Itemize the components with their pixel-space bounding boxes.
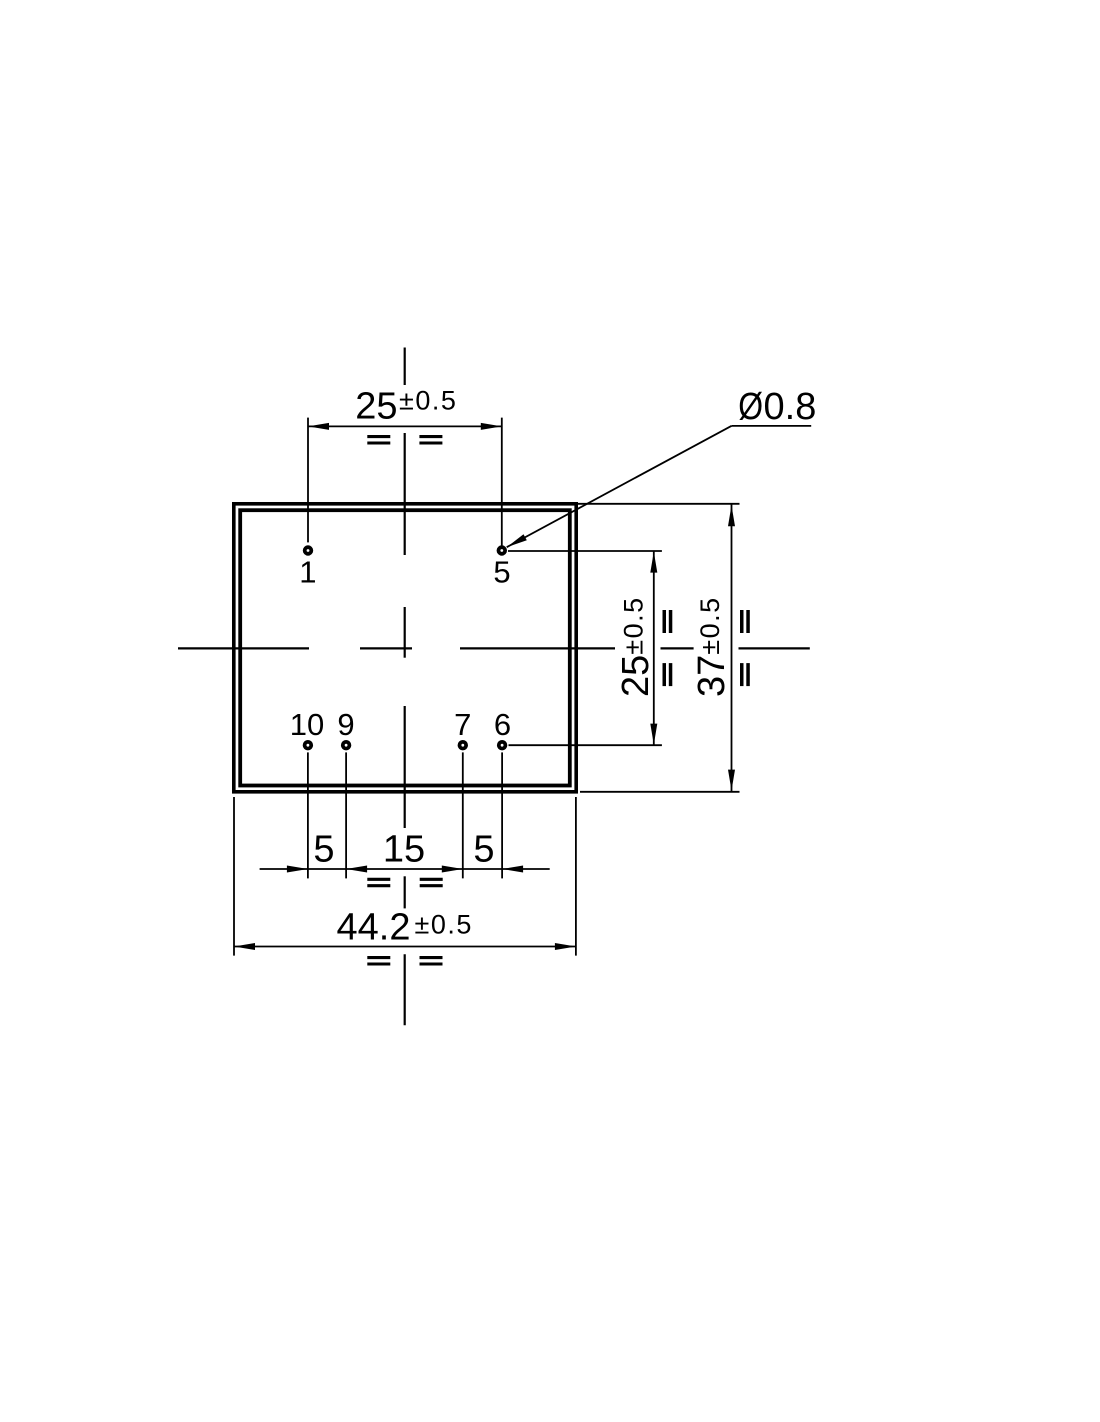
dimension text 44.2±0.5 [337, 906, 473, 948]
svg-text:6: 6 [494, 707, 511, 742]
pin 5 [499, 547, 506, 554]
extension line box top (37 dim) [578, 503, 740, 505]
extension line pin 6 (bottom dim) [501, 752, 503, 878]
svg-text:25: 25 [355, 386, 397, 428]
pin 9 [343, 742, 350, 749]
svg-text:10: 10 [290, 707, 324, 742]
pin 7 [460, 742, 467, 749]
symmetry marks below top dimension [367, 437, 442, 443]
component body outline (outer) [234, 504, 576, 792]
symmetry marks below 44.2 dimension [367, 958, 442, 964]
svg-text:37: 37 [691, 655, 733, 697]
pin 1 [305, 547, 312, 554]
extension line pin 7 (bottom dim) [462, 752, 464, 878]
dimension text 5 (right) [473, 828, 494, 870]
dimension line 37 (vertical) [728, 505, 735, 792]
dimension text 37±0.5 (vertical) [691, 596, 733, 697]
leader text Ø0.8 [738, 386, 816, 429]
pin 1 label [299, 555, 316, 590]
svg-text:7: 7 [454, 707, 471, 742]
dimension line 25 (top) [308, 423, 502, 430]
extension line left (44.2 dim) [233, 797, 235, 956]
dimension line 25 (vertical) [650, 551, 657, 745]
dimension text 25±0.5 (vertical) [615, 596, 657, 697]
leader line Ø0.8 (pin hole diameter) [507, 426, 812, 547]
pin 5 label [493, 555, 510, 590]
pin 6 label [494, 707, 511, 742]
svg-text:0.8: 0.8 [764, 386, 817, 428]
svg-text:9: 9 [337, 707, 354, 742]
dimension line 44.2 [234, 943, 576, 950]
extension line pin 1 (top dim) [307, 418, 309, 543]
extension line pin 5 (top dim) [501, 418, 503, 546]
svg-text:±0.5: ±0.5 [695, 596, 725, 654]
pin 9 label [337, 707, 354, 742]
extension line pin 6 (right dim) [509, 744, 662, 746]
svg-text:5: 5 [493, 555, 510, 590]
extension line box bottom (37 dim) [580, 791, 740, 793]
pin 10 label [290, 707, 324, 742]
symmetry marks below 5/15/5 dimension [367, 879, 442, 885]
svg-text:1: 1 [299, 555, 316, 590]
component body outline (inner) [240, 510, 570, 785]
extension line pin 5 (right dim) [508, 550, 662, 552]
symmetry marks (vertical 25 dim) [664, 610, 670, 686]
dimension text 15 [383, 828, 425, 870]
svg-text:5: 5 [313, 828, 334, 870]
svg-text:Ø: Ø [738, 386, 763, 428]
svg-text:±0.5: ±0.5 [618, 596, 648, 654]
svg-text:±0.5: ±0.5 [399, 386, 457, 416]
vertical centerline [404, 348, 406, 1026]
dimension text 25±0.5 (top) [355, 386, 457, 428]
dimension text 5 (left) [313, 828, 334, 870]
svg-text:5: 5 [473, 828, 494, 870]
dimension line 5/15/5 [260, 866, 550, 873]
horizontal centerline [178, 647, 810, 649]
svg-text:25: 25 [615, 655, 657, 697]
pin 10 [305, 742, 312, 749]
svg-text:15: 15 [383, 828, 425, 870]
svg-text:44.2: 44.2 [337, 906, 411, 948]
extension line pin 9 (bottom dim) [345, 752, 347, 878]
extension line right (44.2 dim) [575, 797, 577, 956]
symmetry marks (vertical 37 dim) [742, 610, 748, 686]
svg-text:±0.5: ±0.5 [415, 910, 473, 940]
pin 7 label [454, 707, 471, 742]
extension line pin 10 (bottom dim) [307, 752, 309, 878]
pin 6 [499, 742, 506, 749]
